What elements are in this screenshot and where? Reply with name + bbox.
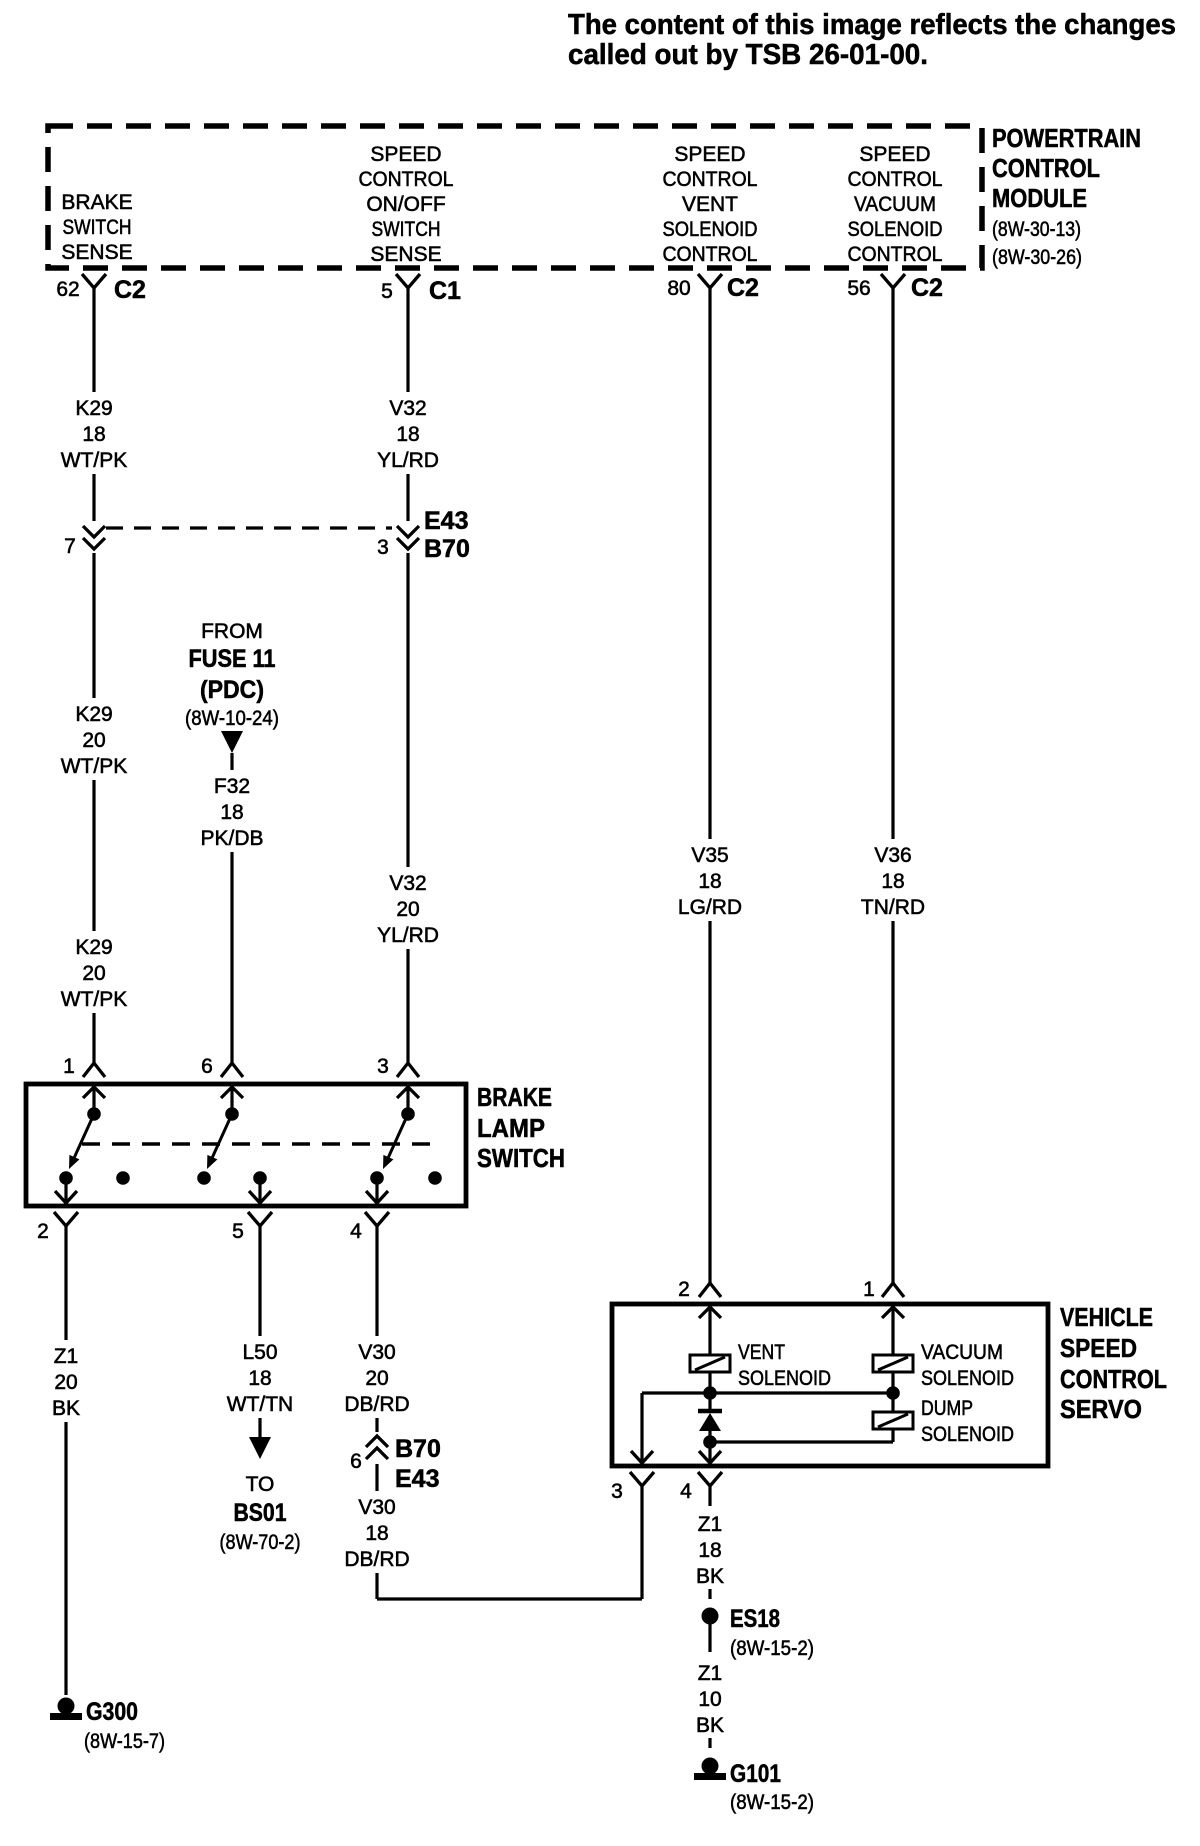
svg-text:K29: K29 (75, 397, 112, 420)
wire V30 from switch pin 4 (375, 1226, 378, 1599)
wire K29 from PCM pin 62 to brake lamp switch pin 1 (92, 288, 95, 1063)
switch contact node pin 3 (401, 1107, 415, 1121)
svg-text:WT/PK: WT/PK (61, 449, 128, 472)
svg-text:VEHICLE: VEHICLE (1060, 1302, 1153, 1332)
label Z1 20 BK (36, 1340, 96, 1422)
svg-text:18: 18 (248, 1367, 271, 1390)
svg-text:called out by TSB 26-01-00.: called out by TSB 26-01-00. (568, 39, 928, 71)
svg-text:20: 20 (54, 1371, 77, 1394)
lower contact pin 5 (253, 1171, 267, 1185)
svg-text:SWITCH: SWITCH (477, 1143, 565, 1173)
svg-text:POWERTRAIN: POWERTRAIN (992, 123, 1141, 153)
svg-text:BK: BK (696, 1565, 724, 1588)
svg-text:SOLENOID: SOLENOID (663, 218, 758, 241)
svg-text:SENSE: SENSE (370, 243, 441, 266)
wire into switch top (92, 1084, 95, 1114)
svg-text:(8W-30-13): (8W-30-13) (992, 218, 1081, 241)
svg-text:20: 20 (396, 898, 419, 921)
svg-text:C1: C1 (429, 277, 461, 305)
svg-text:ON/OFF: ON/OFF (366, 193, 445, 216)
svg-text:V30: V30 (358, 1496, 395, 1519)
wire V32 from PCM pin 5 to brake lamp switch pin 3 (406, 288, 409, 1063)
svg-text:FUSE 11: FUSE 11 (189, 645, 276, 673)
junction below vent solenoid (703, 1386, 717, 1400)
svg-text:LAMP: LAMP (477, 1113, 545, 1143)
svg-text:VENT: VENT (738, 1341, 785, 1364)
svg-text:18: 18 (396, 423, 419, 446)
svg-text:V36: V36 (874, 844, 911, 867)
svg-text:20: 20 (82, 729, 105, 752)
inline connector pin 7 (E43/B70) (78, 521, 110, 553)
svg-text:10: 10 (698, 1688, 721, 1711)
svg-text:(8W-30-26): (8W-30-26) (992, 246, 1082, 269)
label F32 18 PK/DB (194, 770, 270, 852)
svg-text:18: 18 (220, 801, 243, 824)
wire V30 horizontal run to servo pin 3 (377, 1597, 642, 1600)
svg-text:6: 6 (201, 1055, 213, 1078)
svg-text:BRAKE: BRAKE (61, 191, 132, 214)
connector into servo pin 1 (882, 1283, 904, 1297)
label L50 18 WT/TN (222, 1336, 298, 1418)
switch blade 3-4 (388, 1114, 408, 1157)
svg-text:1: 1 (863, 1278, 875, 1301)
svg-text:SPEED: SPEED (674, 143, 745, 166)
svg-text:SOLENOID: SOLENOID (738, 1367, 831, 1390)
junction below vacuum solenoid (886, 1386, 900, 1400)
svg-text:WT/PK: WT/PK (61, 755, 128, 778)
svg-text:BK: BK (696, 1714, 724, 1737)
svg-text:(8W-15-2): (8W-15-2) (730, 1791, 814, 1814)
svg-text:Z1: Z1 (698, 1662, 723, 1685)
svg-text:C2: C2 (114, 276, 146, 304)
wire from dump solenoid to junction (891, 1429, 894, 1442)
svg-text:WT/PK: WT/PK (61, 988, 128, 1011)
connector servo pin 4 (698, 1472, 722, 1486)
connector into servo pin 2 (699, 1283, 721, 1297)
label V32 18 YL/RD (370, 392, 446, 474)
svg-text:20: 20 (365, 1367, 388, 1390)
spare contact (428, 1171, 442, 1185)
svg-text:LG/RD: LG/RD (678, 896, 742, 919)
splice ES18 (702, 1608, 719, 1625)
svg-text:(8W-10-24): (8W-10-24) (185, 707, 279, 730)
switch S1 brake lamp switch box (26, 1084, 466, 1206)
label K29 20 WT/PK (2) (56, 931, 132, 1013)
wire L50 from switch pin 5 (258, 1226, 261, 1437)
wire vacuum branch inside servo (891, 1304, 894, 1355)
switch contact node pin 6 (225, 1107, 239, 1121)
svg-text:K29: K29 (75, 936, 112, 959)
connector C1 pin 5 (396, 274, 420, 288)
svg-text:DB/RD: DB/RD (344, 1393, 409, 1416)
svg-text:CONTROL: CONTROL (359, 168, 454, 191)
label V32 20 YL/RD (370, 867, 446, 949)
svg-text:3: 3 (611, 1480, 623, 1503)
svg-text:K29: K29 (75, 703, 112, 726)
wire into switch top (406, 1084, 409, 1114)
wire junction bus (642, 1391, 893, 1394)
svg-text:TN/RD: TN/RD (861, 896, 925, 919)
svg-text:SWITCH: SWITCH (63, 216, 132, 239)
svg-text:18: 18 (698, 870, 721, 893)
svg-text:YL/RD: YL/RD (377, 449, 439, 472)
label V30 20 DB/RD (339, 1336, 415, 1418)
wire Z1 from servo pin 4 (708, 1486, 711, 1506)
connector into brake lamp switch pin 1 (83, 1063, 105, 1077)
svg-text:Z1: Z1 (54, 1345, 79, 1368)
svg-text:1: 1 (63, 1055, 75, 1078)
svg-text:(8W-70-2): (8W-70-2) (220, 1531, 301, 1554)
dump solenoid L3 (891, 1393, 894, 1412)
svg-text:18: 18 (881, 870, 904, 893)
module vehicle speed control servo box (612, 1304, 1048, 1466)
wire vent branch inside servo (708, 1304, 711, 1355)
wire V36 from PCM pin 56 to servo pin 1 (891, 288, 894, 1283)
svg-text:C2: C2 (727, 274, 759, 302)
junction below diode (703, 1435, 717, 1449)
svg-text:VACUUM: VACUUM (854, 193, 936, 216)
arrow from fuse 11 (221, 731, 243, 753)
svg-text:18: 18 (82, 423, 105, 446)
svg-text:SOLENOID: SOLENOID (848, 218, 943, 241)
svg-text:CONTROL: CONTROL (848, 168, 943, 191)
svg-text:2: 2 (678, 1278, 690, 1301)
svg-text:DUMP: DUMP (921, 1397, 973, 1420)
svg-text:F32: F32 (214, 775, 250, 798)
svg-text:V30: V30 (358, 1341, 395, 1364)
svg-text:SOLENOID: SOLENOID (921, 1367, 1014, 1390)
svg-text:20: 20 (82, 962, 105, 985)
svg-text:E43: E43 (395, 1465, 439, 1493)
svg-text:BRAKE: BRAKE (477, 1082, 552, 1112)
svg-text:18: 18 (365, 1522, 388, 1545)
connector servo pin 3 (630, 1472, 654, 1486)
wire out of switch bottom (64, 1178, 67, 1206)
arrow to BS01 (249, 1437, 271, 1459)
vacuum solenoid L2 (873, 1355, 913, 1372)
connector pin 2 (54, 1212, 78, 1226)
svg-text:7: 7 (64, 535, 76, 558)
svg-text:V32: V32 (389, 872, 426, 895)
dashed connector line E43/B70 (106, 526, 396, 529)
wire Z1 from switch pin 2 to G300 (64, 1226, 67, 1695)
inline connector pin 3 (E43/B70) (392, 521, 424, 553)
module PCM dashed box (48, 126, 982, 268)
svg-text:FROM: FROM (201, 620, 263, 643)
lower contact pin 2 (59, 1171, 73, 1185)
spare contact (197, 1171, 211, 1185)
svg-text:2: 2 (37, 1220, 49, 1243)
ground G101 (702, 1758, 719, 1775)
wire V35 from PCM pin 80 to servo pin 2 (708, 288, 711, 1283)
label V36 18 TN/RD (855, 839, 931, 921)
svg-text:SENSE: SENSE (61, 241, 132, 264)
svg-text:PK/DB: PK/DB (200, 827, 263, 850)
ground G300 (58, 1698, 75, 1715)
svg-text:3: 3 (377, 536, 389, 559)
svg-text:SPEED: SPEED (370, 143, 441, 166)
svg-text:DB/RD: DB/RD (344, 1548, 409, 1571)
inline connector pin 6 (B70/E43) (361, 1432, 393, 1464)
svg-text:B70: B70 (395, 1435, 441, 1463)
svg-text:62: 62 (56, 278, 79, 301)
svg-text:6: 6 (350, 1450, 362, 1473)
svg-text:C2: C2 (911, 274, 943, 302)
svg-text:18: 18 (698, 1539, 721, 1562)
svg-text:SPEED: SPEED (859, 143, 930, 166)
svg-text:ES18: ES18 (730, 1605, 780, 1633)
wire (708, 1624, 711, 1652)
svg-text:CONTROL: CONTROL (992, 153, 1100, 183)
svg-text:4: 4 (680, 1480, 692, 1503)
svg-text:BK: BK (52, 1397, 80, 1420)
svg-text:CONTROL: CONTROL (848, 243, 943, 266)
mechanical coupling dashed line (82, 1142, 442, 1145)
svg-text:Z1: Z1 (698, 1513, 723, 1536)
svg-text:SWITCH: SWITCH (372, 218, 441, 241)
svg-text:WT/TN: WT/TN (227, 1393, 293, 1416)
wire F32 to brake lamp switch pin 6 (230, 753, 233, 1063)
lower contact pin 4 (370, 1171, 384, 1185)
svg-text:The content of this image refl: The content of this image reflects the c… (568, 9, 1176, 41)
svg-text:VACUUM: VACUUM (921, 1341, 1003, 1364)
wire dash (708, 1589, 711, 1599)
svg-text:V35: V35 (691, 844, 728, 867)
svg-text:E43: E43 (424, 507, 468, 535)
switch blade 1-2 (74, 1114, 94, 1157)
connector C2 pin 80 (698, 274, 722, 288)
switch contact node pin 1 (87, 1107, 101, 1121)
svg-text:BS01: BS01 (234, 1499, 287, 1527)
label V30 18 DB/RD (339, 1491, 415, 1573)
label V35 18 LG/RD (672, 839, 748, 921)
svg-text:5: 5 (232, 1220, 244, 1243)
connector into brake lamp switch pin 3 (397, 1063, 419, 1077)
svg-text:B70: B70 (424, 535, 470, 563)
switch blade 6 (212, 1114, 232, 1157)
svg-text:CONTROL: CONTROL (663, 168, 758, 191)
svg-text:TO: TO (246, 1473, 275, 1496)
svg-text:G300: G300 (86, 1698, 138, 1726)
wire ground branch inside servo (640, 1393, 643, 1462)
connector pin 4 (365, 1212, 389, 1226)
wire out of switch bottom (375, 1178, 378, 1206)
svg-text:5: 5 (381, 280, 393, 303)
svg-text:SPEED: SPEED (1060, 1333, 1137, 1363)
svg-text:L50: L50 (242, 1341, 277, 1364)
svg-text:(PDC): (PDC) (200, 676, 264, 704)
svg-text:YL/RD: YL/RD (377, 924, 439, 947)
svg-text:3: 3 (377, 1055, 389, 1078)
svg-text:(8W-15-2): (8W-15-2) (730, 1637, 814, 1660)
wire into switch top (230, 1084, 233, 1114)
svg-text:MODULE: MODULE (992, 183, 1087, 213)
label K29 18 WT/PK (56, 392, 132, 474)
connector C2 pin 62 (82, 274, 106, 288)
svg-text:(8W-15-7): (8W-15-7) (84, 1730, 165, 1753)
connector C2 pin 56 (881, 274, 905, 288)
diode CR1 (708, 1393, 711, 1411)
label K29 20 WT/PK (56, 698, 132, 780)
connector pin 5 (248, 1212, 272, 1226)
spare contact (116, 1171, 130, 1185)
vent solenoid L1 (690, 1355, 730, 1372)
svg-text:V32: V32 (389, 397, 426, 420)
svg-text:G101: G101 (730, 1760, 781, 1788)
svg-text:CONTROL: CONTROL (663, 243, 758, 266)
svg-text:CONTROL: CONTROL (1060, 1364, 1167, 1394)
wire dash (708, 1738, 711, 1748)
svg-text:56: 56 (847, 277, 870, 300)
svg-text:SERVO: SERVO (1060, 1394, 1142, 1424)
wire out of switch bottom (258, 1178, 261, 1206)
svg-text:SOLENOID: SOLENOID (921, 1423, 1014, 1446)
svg-text:80: 80 (667, 277, 690, 300)
connector into brake lamp switch pin 6 (221, 1063, 243, 1077)
svg-text:4: 4 (350, 1220, 362, 1243)
svg-text:VENT: VENT (682, 193, 738, 216)
